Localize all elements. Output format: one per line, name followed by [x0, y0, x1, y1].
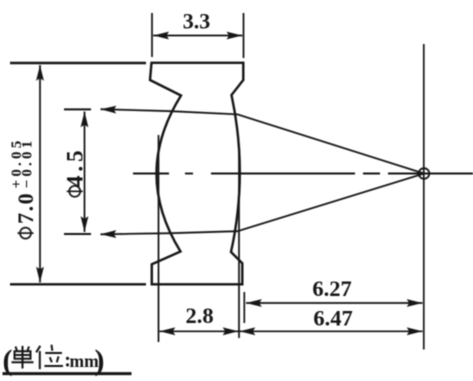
svg-text:3.3: 3.3 — [183, 9, 211, 34]
svg-text:6.27: 6.27 — [312, 276, 351, 301]
svg-text:4.5: 4.5 — [62, 146, 87, 187]
svg-text:2.8: 2.8 — [185, 303, 213, 328]
svg-text:−0.01: −0.01 — [20, 138, 36, 189]
svg-text:): ) — [95, 344, 105, 377]
svg-text:7.0: 7.0 — [13, 192, 38, 224]
svg-text:6.47: 6.47 — [313, 306, 352, 331]
svg-text:(: ( — [3, 344, 13, 377]
